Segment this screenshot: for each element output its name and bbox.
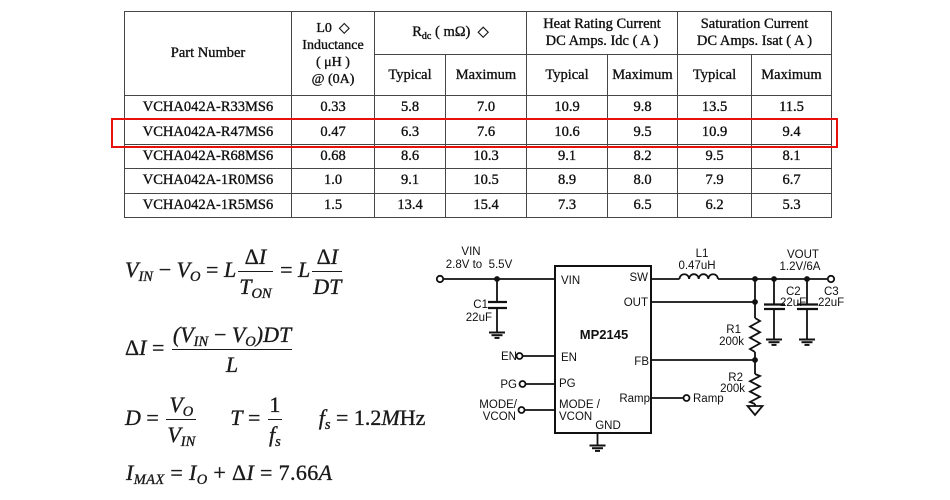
svg-text:PG: PG <box>500 379 517 391</box>
svg-text:C1: C1 <box>473 299 488 311</box>
svg-text:MODE /: MODE / <box>559 399 601 411</box>
svg-text:VOUT: VOUT <box>787 249 819 261</box>
svg-text:22uF: 22uF <box>780 297 806 309</box>
svg-text:VIN: VIN <box>461 246 480 258</box>
svg-text:VCON: VCON <box>559 411 592 423</box>
svg-text:R1: R1 <box>726 324 741 336</box>
svg-text:VIN: VIN <box>561 275 580 287</box>
svg-text:FB: FB <box>634 356 649 368</box>
svg-text:0.47uH: 0.47uH <box>678 260 715 272</box>
svg-text:GND: GND <box>595 420 621 432</box>
svg-text:22uF: 22uF <box>818 297 844 309</box>
svg-text:EN: EN <box>561 352 577 364</box>
svg-text:Ramp: Ramp <box>619 393 650 405</box>
svg-text:22uF: 22uF <box>466 312 492 324</box>
svg-text:MODE/: MODE/ <box>479 399 518 411</box>
svg-text:2.8V to 5.5V: 2.8V to 5.5V <box>446 259 513 271</box>
svg-text:1.2V/6A: 1.2V/6A <box>780 261 821 273</box>
svg-text:OUT: OUT <box>624 297 648 309</box>
svg-text:VCON: VCON <box>483 411 516 423</box>
svg-text:EN: EN <box>501 351 517 363</box>
svg-text:200k: 200k <box>720 383 745 395</box>
svg-text:SW: SW <box>629 272 648 284</box>
svg-text:L1: L1 <box>696 248 709 260</box>
svg-text:MP2145: MP2145 <box>580 327 628 342</box>
svg-text:200k: 200k <box>719 336 744 348</box>
svg-text:PG: PG <box>559 378 576 390</box>
svg-text:Ramp: Ramp <box>693 393 724 405</box>
